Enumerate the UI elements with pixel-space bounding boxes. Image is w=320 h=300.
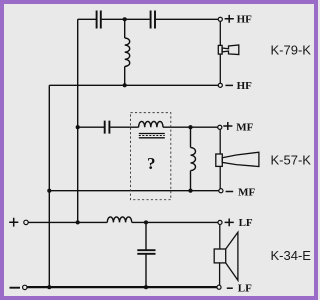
terminal circles [23,17,223,289]
svg-text:LF: LF [239,217,253,229]
input - terminal [23,285,27,289]
label - (HF) [225,84,233,86]
inductor L3 (MF shunt) [191,127,196,191]
wire: -MF rail [49,190,219,192]
node: - bus to -MF rail [47,189,51,193]
speaker BA2 (MF horn K-57-K) [216,129,259,189]
svg-text:K-34-E: K-34-E [271,248,312,263]
svg-text:MF: MF [236,122,253,134]
svg-text:K-57-K: K-57-K [271,153,312,168]
label - (LF) [227,287,233,289]
terminal -HF [218,83,222,87]
node: MF wire / L3 top [188,125,192,129]
node: C1/C2/L1 junction [123,17,127,21]
input + sign [9,218,18,227]
node: C4 bottom [144,285,148,289]
wire: between C1 and C2 [102,18,150,20]
node: riser to + input wire [76,220,80,224]
capacitor C2 (HF series, right) [151,11,155,29]
svg-text:LF: LF [238,283,252,295]
wire: + bus riser (x=78, top wire down to + input wire) [77,19,79,222]
label - (MF) [226,191,234,193]
node: C4 top [144,220,148,224]
capacitor C3 (MF series) [105,121,110,134]
terminal +LF [218,220,222,224]
speaker BA1 (HF tweeter K-79-K) [218,21,239,83]
inductor L4 (LF series) [107,217,131,223]
svg-text:K-79-K: K-79-K [271,43,312,58]
wire: C2 to +HF terminal [156,18,219,20]
core of L2: solid/dashed/solid bars [139,133,165,135]
terminal -LF [217,285,221,289]
wire: MF input wire from riser to C3 [78,126,104,128]
wire: L4 to +LF terminal [132,221,219,223]
wire: - bus (left vertical) [48,85,50,287]
wire: C3 to L2 [110,126,138,128]
wire: -HF rail [49,84,218,86]
capacitor C4 (LF shunt) [145,222,147,250]
wire: bottom - rail [27,286,217,288]
node: L3 to -MF rail [188,189,192,193]
svg-text:HF: HF [237,80,253,92]
wire: + input wire to L4 [28,221,107,223]
node: riser to MF branch [76,125,80,129]
inductor L1 (HF shunt) [125,19,130,85]
plus/minus signs [9,15,234,288]
node: L1 to -HF rail [123,83,127,87]
capacitor C1 (HF series, left) [97,11,101,29]
svg-text:HF: HF [237,13,253,25]
label + (HF) [225,15,234,23]
speaker BA3 (LF woofer K-34-E) [214,224,238,285]
terminal +MF [218,125,222,129]
label + (LF) [225,219,234,227]
terminal +HF [218,17,222,21]
node: - bus to bottom rail [47,285,51,289]
inductor L2 (MF series, cored, inside dashed box) [139,121,163,127]
wire: HF input top wire [78,18,96,20]
terminal -MF [219,189,223,193]
svg-text:MF: MF [238,187,255,199]
input + terminal [24,220,28,224]
wire: L2 to +MF terminal [163,126,218,128]
dashed box around L2 (unknown block) [131,113,171,200]
input - sign [10,287,21,289]
svg-text:?: ? [147,154,156,173]
label + (MF) [223,122,232,130]
